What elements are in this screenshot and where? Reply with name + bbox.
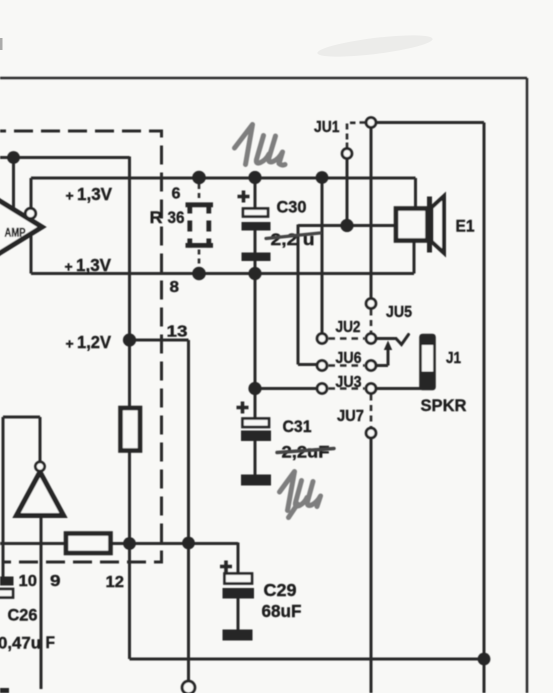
svg-text:C30: C30 [277, 198, 307, 217]
svg-text:+: + [65, 259, 73, 275]
capacitor C30 positive plate [243, 209, 268, 217]
handwritten 1u annotation bottom [280, 472, 321, 518]
ground bar below C31 [241, 475, 271, 486]
wire rail y=273.5 lower +1,3V [31, 272, 414, 275]
wire inverter output down [40, 516, 43, 689]
svg-text:68uF: 68uF [262, 601, 302, 621]
svg-text:+: + [66, 336, 74, 352]
wire vertical x=130 resistor to bottom corner [128, 451, 131, 660]
wire op-amp bottom lead [30, 234, 33, 274]
pin JU2 right [366, 334, 376, 344]
dashed link JU3 to JU7 [370, 395, 373, 428]
wire JU3 right to jack J1 [376, 387, 421, 390]
svg-text:AMP: AMP [5, 228, 26, 240]
wire stub from node to op-amp input [12, 158, 15, 210]
handwritten 1u annotation top [235, 125, 286, 166]
jack J1 bottom contact [421, 372, 435, 390]
wire stub op-amp top to rail [30, 178, 33, 209]
resistor (horizontal, pin 10 row) [66, 534, 111, 554]
wire vertical x=130 down to resistor [128, 157, 131, 409]
dashed jumper JU2 [329, 337, 365, 340]
pin JU3 right [366, 384, 376, 394]
wire x=371 down to JU5 [370, 128, 373, 299]
dashed link JU5 to JU2 [370, 310, 373, 333]
wire inverter bubble lead [39, 417, 42, 462]
cut-off mark bottom left corner [0, 688, 9, 693]
strike mark over 2,2u [266, 233, 320, 239]
wire JU2 right to wiper [376, 337, 395, 340]
wire x=347 JU1 to node [346, 159, 349, 226]
pin JU3 left [317, 384, 327, 394]
dashed link JU1 [347, 123, 365, 149]
capacitor C30 plus sign [238, 191, 250, 203]
wire rail y=225.5 to speaker [298, 224, 397, 227]
wire +1,2V branch right [130, 339, 189, 342]
pin JU1 lower [342, 149, 352, 159]
resistor (vertical, unlabelled) [121, 408, 141, 451]
capacitor C26 bottom plate [0, 589, 13, 598]
svg-text:10: 10 [19, 573, 38, 590]
connector circle bottom [182, 681, 195, 693]
wire JU7 down to bottom edge [370, 439, 373, 693]
wire x=322 node to JU2 left [321, 178, 324, 334]
node C30 top [248, 171, 261, 184]
node bottom right y659 [478, 653, 491, 666]
svg-text:0,47u: 0,47u [0, 635, 41, 653]
node R36 top [192, 171, 206, 185]
wire JU6 right to arrow [376, 350, 388, 366]
dashed lead R36 top [198, 184, 201, 201]
wire rail y=543 left of resistor [0, 542, 66, 545]
capacitor C29 positive plate [225, 574, 253, 584]
wire C30 mid lead [254, 231, 257, 253]
svg-text:R: R [150, 208, 163, 227]
jumper pin circles [182, 118, 376, 693]
pin JU1 upper [366, 118, 376, 128]
op-amp U1 AMP triangle [0, 193, 42, 262]
svg-text:JU3: JU3 [336, 374, 362, 391]
resistor R36 (dashed outline) [186, 203, 214, 248]
op-amp inverting bubble [25, 208, 35, 218]
svg-text:JU7: JU7 [337, 408, 364, 425]
wire vertical x=484 [483, 123, 486, 693]
node C30 bottom [248, 267, 261, 280]
svg-text:J1: J1 [446, 350, 461, 367]
arrow head pointing to wiper [384, 341, 392, 351]
wire inverter top to left [3, 416, 40, 419]
ground bar below C30 [242, 253, 271, 262]
svg-text:C29: C29 [264, 580, 297, 600]
capacitor C29 plus sign [220, 561, 232, 573]
pin JU5 [366, 299, 376, 309]
jack J1 body [421, 335, 435, 389]
svg-text:1,3V: 1,3V [76, 255, 111, 275]
wire speaker bottom lead [413, 239, 416, 274]
speaker E1 cone [432, 196, 445, 253]
svg-text:E1: E1 [456, 218, 475, 236]
svg-text:+: + [66, 188, 74, 204]
jack J1 top contact [421, 335, 435, 345]
pin JU6 left [317, 361, 327, 371]
svg-text:C26: C26 [8, 607, 38, 625]
wire rail y=157 from left to corner x=130 [0, 156, 130, 159]
svg-text:JU5: JU5 [386, 304, 412, 321]
speaker E1 driver box [396, 209, 428, 241]
svg-text:1,3V: 1,3V [77, 184, 112, 204]
switch wiper mark [396, 335, 409, 345]
svg-text:JU2: JU2 [336, 319, 361, 336]
capacitor C31 negative plate [241, 431, 271, 442]
wire x=188 down to bottom circle [187, 340, 190, 682]
dashed jumper JU3 [329, 387, 365, 390]
svg-text:36: 36 [168, 208, 185, 227]
dashed lead R36 bottom [198, 250, 201, 268]
wire to JU6 left [298, 363, 317, 366]
wire rail y=543 resistor to C29 corner [111, 542, 239, 545]
node R36 bottom [192, 267, 206, 281]
node on rail 157 [7, 151, 20, 164]
strike mark over 2,2uF [277, 449, 334, 453]
svg-text:F: F [46, 634, 56, 652]
wire C29 bottom lead [237, 599, 240, 630]
pin JU7 [366, 428, 376, 438]
svg-text:1,2V: 1,2V [77, 332, 111, 352]
svg-text:C31: C31 [283, 417, 312, 436]
wire C31 node to JU3 left [255, 387, 317, 390]
svg-text:8: 8 [170, 279, 180, 296]
junction node dots [7, 151, 490, 665]
wire x=298 down [297, 225, 300, 365]
pin JU6 right [366, 361, 376, 371]
wire speaker top lead [414, 178, 417, 210]
capacitor C30 negative plate [242, 222, 271, 231]
pin JU2 left [317, 334, 327, 344]
speaker E1 magnet bar [427, 197, 432, 253]
wire C29 top lead [237, 543, 240, 574]
svg-text:12: 12 [106, 574, 125, 591]
dashed jumper JU6 [329, 364, 365, 367]
wire left edge down to C26 [2, 417, 5, 577]
capacitor C29 negative plate [223, 588, 255, 599]
svg-text:JU6: JU6 [336, 350, 362, 367]
wire C31 plate lead [254, 389, 257, 419]
dashed IC boundary box [0, 131, 162, 562]
inverter triangle (bottom left) [17, 472, 64, 516]
svg-text:13: 13 [167, 324, 188, 341]
ground bar below C29 [223, 630, 253, 641]
node C29 branch [182, 537, 195, 550]
svg-text:JU1: JU1 [314, 119, 340, 136]
node x322 rail [316, 171, 329, 184]
wire C31 top feed from rail [254, 274, 257, 389]
wire C30 top lead [254, 178, 257, 209]
capacitor C31 plus sign [237, 402, 249, 414]
node JU1 line to rail 225 [340, 219, 353, 232]
wire rail y=178 upper +1,3V [31, 177, 416, 180]
wire C30 gnd lead [254, 261, 257, 274]
inverter bubble [35, 462, 44, 471]
capacitor C26 top plate (cut at left edge) [0, 577, 14, 586]
svg-text:9: 9 [50, 573, 61, 590]
capacitor C31 positive plate [243, 419, 270, 428]
wire JU1 circle to right [376, 121, 484, 124]
node C31 top [248, 382, 261, 395]
svg-text:6: 6 [172, 186, 181, 203]
node resistor to rail 543 [123, 537, 136, 550]
wire C31 gnd lead [254, 441, 257, 475]
svg-text:SPKR: SPKR [421, 397, 467, 415]
wire horizontal y=659 [130, 658, 485, 661]
node +1,2V [123, 333, 136, 346]
